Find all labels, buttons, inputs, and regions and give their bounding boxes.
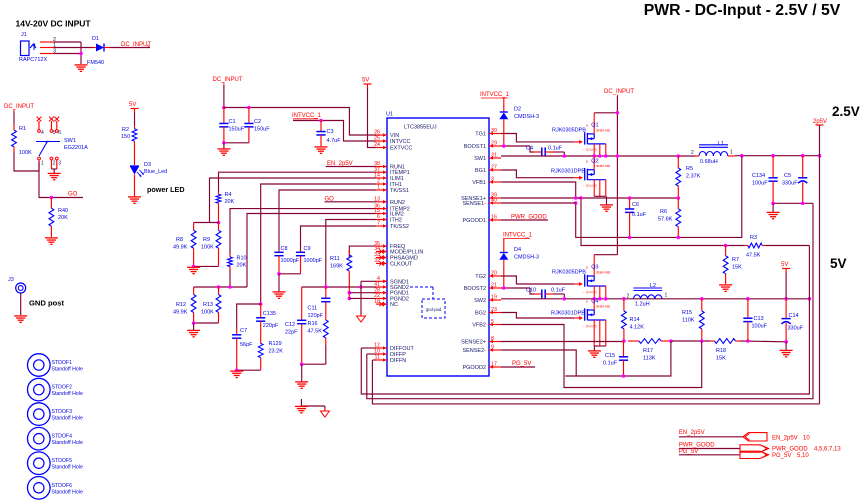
ground [273,292,286,298]
junction [217,221,221,225]
wire [223,143,225,149]
svg-text:drain-tab: drain-tab [596,164,610,168]
ground [217,149,230,155]
svg-text:C135: C135 [263,311,276,317]
text 14V-20V DC INPUT [16,19,92,29]
transistor Q1 RJK0305DPB [552,113,610,156]
svg-text:3: 3 [491,177,494,183]
junction [192,321,196,325]
svg-text:TK/SS2: TK/SS2 [390,224,409,230]
junction [616,154,620,158]
standoff hole STDOF5 [28,452,83,475]
svg-text:C2: C2 [254,119,261,125]
wire BOOST2 row [501,288,534,294]
svg-text:STDOF2: STDOF2 [52,385,73,391]
svg-text:31: 31 [491,153,497,159]
wire J1 pin3 [54,53,81,55]
junction [740,154,744,158]
svg-text:15K: 15K [732,265,742,271]
svg-text:2: 2 [627,294,630,300]
junction [622,339,626,343]
power symbol 5V [362,78,372,89]
ground [767,212,780,218]
wire DIFFOUT loop [361,246,809,395]
capacitor C6 0.1uF [625,198,647,237]
junction [228,285,232,289]
wire BG2 [501,313,574,319]
svg-text:EN_2p5V: EN_2p5V [679,430,705,436]
junction [616,111,620,115]
svg-text:1000pF: 1000pF [281,258,300,264]
resistor R16 47.5K [308,313,329,364]
junction [784,340,788,344]
wire [785,342,787,350]
svg-text:SENSE2+: SENSE2+ [461,340,486,346]
svg-text:υ: υ [586,299,588,304]
wire [772,203,774,212]
junction [319,119,323,123]
wire [134,145,136,165]
svg-text:power LED: power LED [147,185,185,194]
capacitor C11 120pF [308,287,331,319]
junction [628,196,632,200]
svg-text:GO: GO [68,192,78,198]
svg-text:R5: R5 [686,166,693,172]
svg-text:0.68uH: 0.68uH [700,159,718,165]
svg-text:DC_INPUT: DC_INPUT [213,77,243,83]
wire J1 pin1 to D1 [54,47,93,49]
svg-text:C11: C11 [308,306,318,312]
transistor Q2 RJK0301DPB [551,156,610,196]
svg-text:CLKOUT: CLKOUT [390,261,413,267]
svg-text:49.9K: 49.9K [173,310,188,316]
resistor R12 49.9K [173,287,196,320]
svg-text:1: 1 [730,150,733,156]
svg-text:6: 6 [377,214,380,220]
junction [259,302,263,306]
capacitor C13 100uF [743,299,767,341]
svg-text:4.7uF: 4.7uF [327,138,342,144]
svg-text:υ: υ [586,123,588,128]
5V output label [830,256,847,271]
svg-text:← (υ,υ,υ): ← (υ,υ,υ) [582,324,597,328]
wire R8 R9 top [194,222,219,224]
svg-text:40: 40 [491,198,497,204]
svg-text:15K: 15K [716,356,726,362]
svg-text:100uF: 100uF [752,324,768,330]
junction [818,154,822,158]
wire DC_INPUT column [616,96,618,255]
svg-text:PG_5V: PG_5V [512,361,531,367]
wire [679,448,740,450]
net label PWR_GOOD [679,443,715,449]
svg-text:CMDSH-3: CMDSH-3 [514,114,539,120]
ground [48,173,61,179]
junction [359,285,363,289]
svg-text:R15: R15 [682,310,692,316]
wire VFB1 row [501,182,678,198]
svg-text:8: 8 [491,336,494,342]
wire R3 right [765,245,809,247]
wire [785,272,787,299]
svg-text:SENSE1-: SENSE1- [462,201,486,207]
svg-text:drain-tab: drain-tab [596,128,610,132]
svg-text:DC_INPUT: DC_INPUT [4,104,34,110]
svg-text:100K: 100K [19,150,32,156]
junction [746,339,750,343]
ground [719,285,732,291]
standoff hole STDOF6 [28,477,83,500]
wire [223,85,225,108]
junction [801,154,805,158]
junction [598,154,602,158]
svg-text:U1: U1 [386,112,393,118]
text power LED [147,185,185,194]
svg-text:19: 19 [491,295,497,301]
resistor R1 100K [12,125,33,156]
wire vertical to ground [80,42,82,64]
svg-text:113K: 113K [643,356,656,362]
svg-text:17: 17 [491,362,497,368]
junction [604,297,608,301]
svg-text:Standoff Hole: Standoff Hole [52,391,83,397]
net label EN_2p5V [327,161,353,167]
net label INTVCC_1 [503,233,533,239]
junction [217,285,221,289]
wire Q1 drain [594,112,617,114]
svg-text:EN_2p5V: EN_2p5V [327,161,353,167]
svg-text:330uF: 330uF [788,326,804,332]
svg-text:R1: R1 [19,126,26,132]
svg-text:PWR_GOOD: PWR_GOOD [511,214,547,220]
net label DC_INPUT [121,42,151,48]
svg-text:INTVCC_1: INTVCC_1 [503,233,533,239]
svg-text:49.9K: 49.9K [173,245,188,251]
junction [622,374,626,378]
wire SENSE1+ row [501,197,581,199]
ground [128,197,141,203]
wire [368,88,377,148]
junction [598,297,602,301]
svg-text:TG1: TG1 [475,132,486,138]
svg-text:56pF: 56pF [240,342,253,348]
capacitor C5 330uF [782,156,807,204]
wire SGND2 row [302,286,376,288]
ground [14,316,27,322]
ground [187,330,200,336]
title text [644,2,841,19]
svg-text:Standoff Hole: Standoff Hole [52,440,83,446]
net label INTVCC_1 [292,113,322,119]
wire TKSS2 row [301,226,377,250]
wire cap bottoms [279,273,301,275]
wire SW pins 2-3 to ground [52,169,57,173]
svg-text:5: 5 [53,130,56,136]
svg-text:0.1uF: 0.1uF [603,361,618,367]
wire fb row 5V [501,341,624,343]
gnd-pad dashed [410,287,445,318]
svg-text:R16: R16 [308,321,318,327]
svg-text:drain-tab: drain-tab [596,271,610,275]
junction [79,52,83,56]
capacitor C3 4.7uF [316,121,341,147]
svg-text:STDOF6: STDOF6 [52,483,73,489]
resistor R8 49.9K [173,223,196,257]
wire [134,112,136,125]
svg-text:R8: R8 [176,237,183,243]
svg-text:4,5,6,7,13: 4,5,6,7,13 [814,447,841,453]
capacitor C134 100uF [752,156,778,204]
ground [187,267,200,273]
wire C15 loop [565,341,671,376]
svg-text:0.1uF: 0.1uF [548,146,563,152]
wire [563,294,565,299]
svg-text:LTC3855EUJ: LTC3855EUJ [404,125,437,131]
wire BG1 [501,170,574,178]
svg-text:R13: R13 [203,302,213,308]
svg-text:100K: 100K [201,310,214,316]
wire ITH2 row [326,220,376,288]
svg-text:7: 7 [377,221,380,227]
wire cap bottoms [224,142,249,144]
svg-text:C5: C5 [784,173,791,179]
wire ITEMP1 row [219,172,377,191]
svg-text:Standoff Hole: Standoff Hole [52,489,83,495]
resistor R6 57.6K [658,198,681,237]
net label GO at RUN2 [325,196,335,202]
svg-text:32: 32 [374,258,380,264]
svg-text:Standoff Hole: Standoff Hole [52,367,83,373]
svg-text:gnd-pad: gnd-pad [426,307,442,312]
svg-text:GND post: GND post [29,299,64,308]
svg-text:2.37K: 2.37K [686,174,701,180]
svg-text:STDOF3: STDOF3 [52,409,73,415]
standoff hole STDOF2 [28,378,83,401]
svg-text:Standoff Hole: Standoff Hole [52,465,83,471]
svg-text:5V: 5V [781,262,788,268]
svg-text:2.5V: 2.5V [832,104,860,119]
junction [502,286,506,290]
resistor R5 2.37K [676,156,701,198]
svg-text:21: 21 [491,283,497,289]
wire BOOST1 row [501,146,534,152]
junction [746,297,750,301]
svg-text:18: 18 [374,299,380,305]
capacitor C9 1000pF [296,246,323,274]
svg-text:C4: C4 [526,146,533,152]
svg-text:C15: C15 [605,353,615,359]
svg-text:1: 1 [665,293,668,299]
junction [574,201,578,205]
svg-text:R18: R18 [716,348,726,354]
port EN_2p5V [743,433,811,442]
connector J1 RAPC712X [19,32,56,63]
wire [20,293,22,315]
wire TG2 [501,276,574,284]
net label PG_5V [679,449,698,455]
wire [679,454,740,456]
wire [13,111,15,125]
svg-text:100K: 100K [201,245,214,251]
junction [604,154,608,158]
svg-text:14V-20V DC INPUT: 14V-20V DC INPUT [16,19,92,29]
svg-text:← (υ,υ,υ): ← (υ,υ,υ) [582,290,597,294]
capacitor C10 0.1uF [526,288,566,299]
svg-text:Standoff Hole: Standoff Hole [52,416,83,422]
svg-text:20: 20 [491,271,497,277]
svg-text:C12: C12 [285,322,295,328]
svg-text:57.6K: 57.6K [658,217,673,223]
svg-text:D1: D1 [92,36,99,42]
net label DC_INPUT [4,104,34,112]
svg-text:SW2: SW2 [474,298,486,304]
svg-text:9: 9 [491,345,494,351]
svg-text:R6: R6 [660,209,667,215]
svg-text:2p5V: 2p5V [813,119,827,125]
power symbol 2p5V [813,119,827,125]
wire ITEMP2 row [230,209,376,254]
wire PGND2 row [349,297,376,299]
wire [679,436,743,438]
junction [348,291,352,295]
resistor R13 100K [201,287,221,320]
wire R8 R9 bottom [194,256,219,266]
svg-text:RUN2: RUN2 [390,200,405,206]
resistor R11 169K [330,250,352,276]
svg-text:RJK0305DPB: RJK0305DPB [552,128,586,134]
svg-text:EXTVCC: EXTVCC [390,146,412,152]
wire 2p5V sense vert [819,156,821,404]
capacitor C7 56pF [232,328,253,348]
svg-text:150uF: 150uF [254,127,270,133]
ground [600,205,613,211]
junction [628,236,632,240]
svg-text:SENSE2-: SENSE2- [462,348,486,354]
wire R1 to SW1 pin1 [14,152,39,171]
wire SENSE2- loop [501,350,576,376]
net label PWR_GOOD [511,214,547,220]
wire J1 pin2 [54,41,81,43]
junction [277,272,281,276]
svg-text:D4: D4 [514,247,521,253]
svg-text:R129: R129 [269,341,282,347]
ground triangle [357,314,366,322]
power symbol 5V [129,102,139,113]
svg-text:EG2201A: EG2201A [64,145,88,151]
ground [295,406,308,412]
svg-text:13: 13 [374,197,380,203]
wire SW1 pin1 down [39,162,83,198]
svg-text:22pF: 22pF [285,330,298,336]
svg-text:150: 150 [121,134,130,140]
resistor R18 15K [710,339,740,362]
svg-text:υ: υ [586,265,588,270]
wire gnd cluster [301,399,325,409]
svg-text:C10: C10 [526,288,536,294]
svg-text:R4: R4 [225,192,232,198]
wire DIFFN loop [372,360,819,404]
wire R4 bottom [218,206,220,223]
wire Q4 source to gnd [594,346,606,351]
svg-text:BG1: BG1 [475,168,486,174]
svg-text:J3: J3 [8,277,14,283]
svg-text:20K: 20K [225,199,235,205]
inductor L2 1.2uH [627,283,668,308]
svg-text:23: 23 [491,307,497,313]
wire EN_2p5V to RUN1 [326,166,376,168]
svg-text:R17: R17 [643,348,653,354]
svg-text:STDOF5: STDOF5 [52,458,73,464]
wire DIFFP loop [367,203,813,398]
wire Q3 drain [594,254,617,256]
svg-text:C1: C1 [229,119,236,125]
junction [247,106,251,110]
wire ITH1 row [261,184,376,304]
junction [592,297,596,301]
diode D1 FM540 [87,36,110,66]
svg-text:EN_2p5V: EN_2p5V [772,435,798,441]
svg-text:C134: C134 [752,173,765,179]
wire SW2 5V rail [501,298,809,300]
standoff hole STDOF3 [28,403,83,426]
ground [230,371,243,377]
wire [301,364,303,381]
svg-text:RJK0301DPB: RJK0301DPB [551,169,585,175]
svg-text:R9: R9 [203,237,210,243]
svg-text:2: 2 [691,150,694,156]
svg-text:PWR_GOOD: PWR_GOOD [679,443,715,449]
svg-text:PG_5V: PG_5V [772,453,791,459]
svg-text:2: 2 [53,161,56,167]
wire R11 bottom [348,276,350,298]
svg-text:23.2K: 23.2K [269,349,284,355]
junction [222,141,226,145]
svg-text:C9: C9 [304,246,311,252]
svg-text:R40: R40 [58,208,68,214]
wire PGND1 row [349,292,376,294]
wire FREQ row [349,246,376,257]
svg-text:STDOF4: STDOF4 [52,434,73,440]
svg-text:120pF: 120pF [308,313,324,319]
wire [134,178,136,197]
svg-text:30: 30 [491,128,497,134]
diode D4 CMDSH-3 [499,239,539,289]
switch SW1 EG2201A [36,117,88,169]
svg-text:150uF: 150uF [229,127,245,133]
transistor Q3 RJK0305DPB [552,255,610,299]
junction [324,285,328,289]
svg-text:υ: υ [586,158,588,163]
svg-text:R11: R11 [330,256,340,262]
wire [563,152,565,156]
svg-text:RAPC712X: RAPC712X [19,57,47,63]
wire PG_5V [501,366,535,368]
ground [780,350,793,356]
junction [592,154,596,158]
resistor R4 20K [216,192,235,207]
svg-text:10: 10 [803,435,810,441]
svg-text:STDOF1: STDOF1 [52,360,73,366]
svg-text:20K: 20K [58,215,68,221]
wire 2p5V column [819,125,821,156]
wire r2 loop [581,198,745,246]
svg-text:PGOOD1: PGOOD1 [462,218,486,224]
svg-text:R12: R12 [176,302,186,308]
port PWR_GOOD PG_5V [740,445,841,459]
svg-text:47.5K: 47.5K [746,253,761,259]
transistor Q4 RJK0301DPB [551,299,610,346]
svg-text:C14: C14 [789,313,799,319]
